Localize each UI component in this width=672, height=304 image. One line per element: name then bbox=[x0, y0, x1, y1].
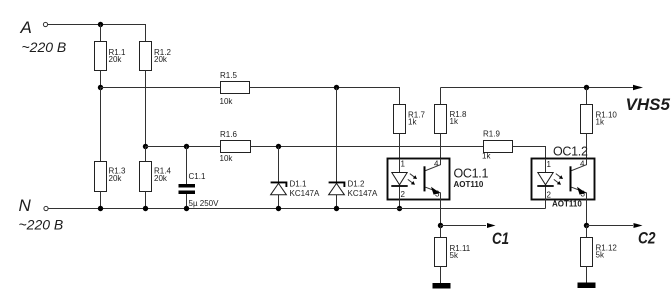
resistor R1.3 bbox=[95, 162, 107, 192]
ground (C1 branch) bbox=[433, 283, 451, 289]
svg-text:1k: 1k bbox=[408, 118, 417, 127]
wire x=100 down to R1.3 bbox=[100, 88, 102, 162]
svg-text:C1.1: C1.1 bbox=[189, 172, 206, 181]
node junction R1.4/N bbox=[143, 206, 148, 211]
wire OC1.1 pin2 to N row bbox=[399, 200, 401, 209]
phototransistor of OC1.2 bbox=[570, 166, 572, 191]
wire R1.2 bottom to R1.6 node bbox=[145, 71, 147, 147]
svg-text:10k: 10k bbox=[220, 97, 234, 106]
node junction C2 bbox=[584, 223, 589, 228]
node junction C1 bbox=[438, 223, 443, 228]
svg-text:A: A bbox=[20, 18, 32, 37]
node junction R1.3/N bbox=[98, 206, 103, 211]
svg-text:OC1.1: OC1.1 bbox=[454, 167, 489, 181]
wire R1.6 row left bbox=[146, 146, 221, 148]
wire R1.12 to ground bbox=[586, 267, 588, 283]
terminal A bbox=[43, 22, 47, 26]
svg-text:20k: 20k bbox=[154, 174, 168, 183]
svg-text:C1: C1 bbox=[492, 229, 509, 248]
wire R1.9 to OC1.2 pin1 bbox=[513, 147, 546, 160]
svg-text:R1.9: R1.9 bbox=[483, 130, 500, 139]
wire R1.10 top bbox=[586, 88, 588, 105]
svg-text:D1.2: D1.2 bbox=[348, 180, 365, 189]
wire R1.2 top bbox=[145, 25, 147, 42]
svg-text:R1.6: R1.6 bbox=[220, 130, 237, 139]
wire A row bbox=[48, 24, 146, 26]
svg-text:5k: 5k bbox=[596, 251, 605, 260]
node junction R1.10 top bbox=[584, 85, 589, 90]
resistor R1.10 bbox=[581, 105, 593, 134]
wire R1.10 bottom to OC1.2 pin4 bbox=[586, 134, 588, 160]
node junction A/R1.1 bbox=[98, 22, 103, 27]
wire R1.4 top bbox=[145, 147, 147, 162]
svg-text:1k: 1k bbox=[482, 152, 491, 161]
wire R1.1 top bbox=[100, 25, 102, 42]
svg-text:1k: 1k bbox=[596, 118, 605, 127]
resistor R1.4 bbox=[140, 162, 152, 192]
wire R1.1 bottom to node bbox=[100, 71, 102, 88]
wire C2 arrow line bbox=[587, 225, 634, 227]
resistor R1.6 bbox=[221, 141, 251, 153]
svg-text:1: 1 bbox=[401, 160, 406, 169]
opto-coupler U2 OC1.2 bbox=[532, 145, 595, 209]
node junction C1.1 top bbox=[184, 144, 189, 149]
svg-text:KC147A: KC147A bbox=[348, 189, 378, 198]
resistor R1.2 bbox=[140, 42, 152, 71]
svg-text:2: 2 bbox=[401, 190, 406, 199]
LED of OC1.2 bbox=[545, 159, 547, 173]
terminal N bbox=[44, 206, 48, 210]
wire N row bbox=[49, 208, 546, 210]
svg-text:AOT110: AOT110 bbox=[454, 180, 484, 189]
node junction D1.1 top bbox=[276, 144, 281, 149]
svg-text:C2: C2 bbox=[638, 229, 656, 248]
resistor R1.7 bbox=[394, 105, 406, 134]
wire R1.8 bottom to OC1.1 pin4 bbox=[440, 134, 442, 160]
opto-coupler U1 OC1.1 bbox=[388, 159, 489, 200]
LED of OC1.1 bbox=[399, 159, 401, 173]
svg-text:R1.5: R1.5 bbox=[220, 71, 237, 80]
wire C1 arrow line bbox=[441, 225, 487, 227]
svg-text:5µ 250V: 5µ 250V bbox=[189, 199, 220, 208]
svg-text:20k: 20k bbox=[154, 55, 168, 64]
node junction C1.1/N bbox=[184, 206, 189, 211]
resistor R1.11 bbox=[435, 238, 447, 267]
wire R1.6 row right to R1.9 bbox=[251, 146, 484, 148]
wire VHS5 row bbox=[441, 87, 634, 89]
light arrows OC1.1 bbox=[410, 174, 415, 178]
svg-text:~220 В: ~220 В bbox=[22, 39, 67, 55]
wire R1.11 top bbox=[440, 226, 442, 238]
wire R1.8 top bend bbox=[440, 88, 442, 105]
svg-text:D1.1: D1.1 bbox=[290, 180, 307, 189]
light arrows OC1.2 bbox=[556, 174, 561, 178]
arrow C2 bbox=[634, 223, 643, 228]
svg-text:5k: 5k bbox=[450, 251, 459, 260]
svg-text:N: N bbox=[19, 196, 32, 215]
ground (C2 branch) bbox=[578, 283, 596, 289]
arrow C1 bbox=[487, 223, 496, 228]
resistor R1.12 bbox=[581, 238, 593, 267]
svg-text:AOT110: AOT110 bbox=[552, 200, 582, 209]
resistor R1.1 bbox=[95, 42, 107, 71]
resistor R1.8 bbox=[435, 105, 447, 134]
svg-text:VHS5: VHS5 bbox=[626, 95, 671, 114]
wire R1.11 to ground bbox=[440, 267, 442, 284]
wire R1.7 bottom to OC1.1 pin1 bbox=[399, 134, 401, 160]
zener diode D1.2 bbox=[336, 88, 338, 209]
wire R1.4 bottom bbox=[145, 192, 147, 209]
arrow VHS5 bbox=[633, 85, 643, 90]
svg-text:20k: 20k bbox=[109, 174, 123, 183]
wire R1.3 bottom bbox=[100, 192, 102, 209]
node junction R1.2/R1.6/R1.4 bbox=[143, 144, 148, 149]
resistor R1.5 bbox=[221, 82, 250, 94]
wire R1.5 row right to R1.7 bend bbox=[250, 88, 400, 105]
svg-text:~220 В: ~220 В bbox=[19, 216, 64, 232]
wire OC1.2 pin3 down bbox=[586, 200, 588, 226]
svg-text:1k: 1k bbox=[450, 117, 459, 126]
node junction OC1.1 pin2 bbox=[397, 206, 402, 211]
phototransistor of OC1.1 bbox=[424, 166, 426, 191]
svg-text:2: 2 bbox=[547, 191, 552, 200]
svg-text:1: 1 bbox=[547, 160, 552, 169]
svg-text:20k: 20k bbox=[109, 55, 123, 64]
svg-text:KC147A: KC147A bbox=[290, 189, 320, 198]
zener diode D1.1 bbox=[278, 147, 280, 209]
resistor R1.9 bbox=[484, 141, 513, 153]
wire OC1.2 pin2 to N row end bbox=[545, 200, 547, 209]
wire OC1.1 pin3 down bbox=[440, 200, 442, 226]
node junction D1.1/N bbox=[276, 206, 281, 211]
svg-text:10k: 10k bbox=[220, 154, 234, 163]
wire R1.12 top bbox=[586, 226, 588, 238]
svg-text:OC1.2: OC1.2 bbox=[553, 145, 588, 159]
node junction D1.2 top bbox=[334, 85, 339, 90]
capacitor C1.1 bbox=[186, 147, 188, 185]
node junction D1.2/N bbox=[334, 206, 339, 211]
wire R1.5 row left bbox=[101, 87, 221, 89]
node junction R1.1/R1.5/R1.3 bbox=[98, 85, 103, 90]
